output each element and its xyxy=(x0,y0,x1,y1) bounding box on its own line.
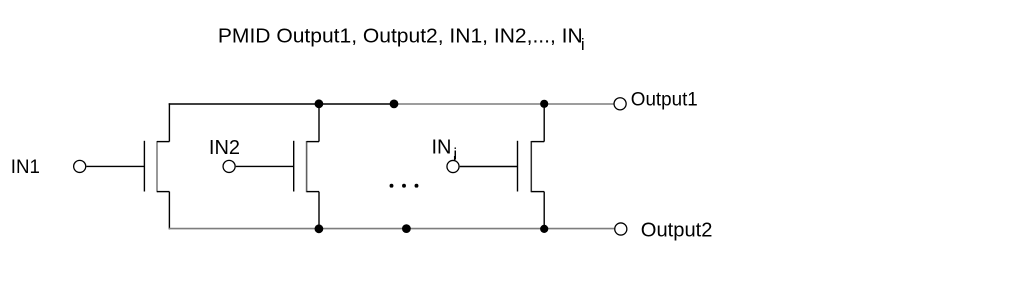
svg-text:PMID Output1, Output2, IN1, IN: PMID Output1, Output2, IN1, IN2,..., IN xyxy=(218,25,583,47)
node Output2 label xyxy=(641,219,713,241)
transistor M1 drain jog xyxy=(157,141,169,143)
transistor Mi source jog xyxy=(531,191,544,193)
wire M2 drain lead xyxy=(318,104,320,142)
junction dot bottom rail Mi source xyxy=(540,225,548,233)
terminal pin INi xyxy=(447,160,459,172)
transistor M2 channel bar xyxy=(306,141,308,192)
wire Mi source lead xyxy=(543,192,545,229)
wire INi gate lead xyxy=(460,166,518,168)
terminal pin Output1 xyxy=(614,98,626,110)
wire M2 source lead xyxy=(318,192,320,229)
junction dot top rail Mi drain xyxy=(540,100,548,108)
junction dot bottom rail M2 source xyxy=(315,224,324,233)
node INi label xyxy=(432,136,458,163)
wire M1 source lead xyxy=(168,192,170,230)
wire top rail grey segment xyxy=(394,103,614,105)
transistor M2 gate bar xyxy=(293,141,295,192)
title label PMID Output1, Output2, IN1, IN2,..., INi xyxy=(218,25,585,54)
wire Mi drain lead xyxy=(543,104,545,142)
wire INi label stub xyxy=(454,156,456,161)
terminal pin IN2 xyxy=(223,160,235,172)
transistor M1 source jog xyxy=(157,191,169,193)
terminal pin Output2 xyxy=(615,223,627,235)
junction dot top rail M2 drain xyxy=(315,99,324,108)
svg-text:IN2: IN2 xyxy=(209,137,240,159)
transistor Mi channel bar xyxy=(530,141,532,192)
wire top rail black segment xyxy=(169,103,394,105)
transistor M1 gate bar xyxy=(143,141,145,192)
wire IN2 gate lead xyxy=(236,165,294,167)
transistor Mi drain jog xyxy=(531,141,544,143)
svg-text:IN1: IN1 xyxy=(11,157,40,178)
transistor Mi gate bar xyxy=(517,141,519,192)
svg-text:IN: IN xyxy=(432,136,452,158)
transistor M2 drain jog xyxy=(307,141,319,143)
wire M1 drain lead xyxy=(168,103,170,141)
node IN1 label xyxy=(11,157,40,178)
svg-text:Output1: Output1 xyxy=(631,89,698,111)
wire bottom rail grey segment xyxy=(169,228,615,230)
terminal pin IN1 xyxy=(74,160,86,172)
svg-text:Output2: Output2 xyxy=(641,219,713,241)
transistor M2 source jog xyxy=(307,191,319,193)
node IN2 label xyxy=(209,137,240,159)
junction dot top rail mid xyxy=(390,100,399,109)
svg-text:i: i xyxy=(581,35,585,54)
transistor M1 channel bar xyxy=(156,141,158,192)
wire IN1 gate lead xyxy=(86,165,144,167)
junction dot bottom rail mid xyxy=(402,224,411,233)
ellipsis continuation dots xyxy=(390,184,419,188)
node Output1 label xyxy=(631,89,698,111)
